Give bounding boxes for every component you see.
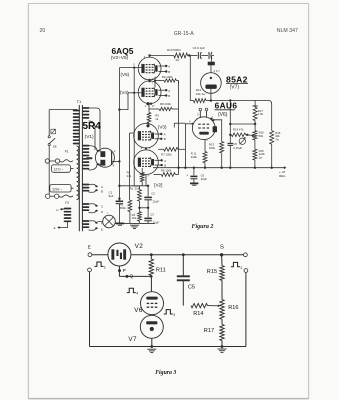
svg-text:20: 20	[40, 28, 46, 34]
svg-text:V6: V6	[134, 307, 143, 314]
svg-text:R9 100k: R9 100k	[162, 75, 173, 79]
svg-text:27k: 27k	[127, 174, 132, 178]
svg-text:P: P	[123, 268, 126, 274]
svg-text:1.5k: 1.5k	[258, 112, 264, 116]
svg-text:R15: R15	[207, 269, 217, 275]
svg-text:127v ~: 127v ~	[54, 168, 64, 172]
svg-text:F2: F2	[65, 201, 69, 205]
svg-text:A: A	[168, 89, 170, 93]
svg-text:Figura 2: Figura 2	[192, 224, 214, 230]
svg-text:R14: R14	[193, 311, 203, 317]
svg-text:A: A	[101, 185, 103, 189]
svg-text:B: B	[168, 70, 170, 74]
svg-text:R10 500Ω: R10 500Ω	[167, 48, 181, 52]
svg-text:Q: Q	[130, 274, 134, 280]
svg-text:B: B	[164, 164, 166, 168]
svg-text:B: B	[101, 189, 103, 193]
svg-text:100k: 100k	[209, 146, 216, 150]
svg-text:10k: 10k	[132, 216, 137, 220]
svg-text:(V1): (V1)	[85, 134, 94, 140]
svg-text:220v ~: 220v ~	[52, 187, 62, 191]
svg-text:R17: R17	[204, 328, 214, 334]
svg-text:22µF: 22µF	[153, 199, 160, 203]
svg-text:A: A	[164, 132, 166, 136]
svg-text:(V5): (V5)	[121, 72, 130, 77]
svg-text:6AU6: 6AU6	[215, 100, 238, 110]
svg-text:2 4 7: 2 4 7	[214, 69, 221, 73]
svg-text:V2: V2	[135, 243, 144, 250]
svg-text:C5: C5	[188, 284, 195, 290]
svg-text:NLM 347: NLM 347	[277, 28, 298, 34]
svg-text:(V7): (V7)	[230, 85, 240, 91]
svg-text:3: 3	[173, 313, 175, 317]
svg-text:(V6): (V6)	[218, 112, 228, 118]
svg-text:R11: R11	[156, 268, 166, 274]
svg-text:T1: T1	[77, 99, 82, 104]
svg-text:Figura 3: Figura 3	[155, 370, 176, 376]
svg-text:C2: C2	[151, 191, 155, 195]
svg-text:S: S	[220, 245, 224, 251]
svg-text:50k: 50k	[259, 134, 264, 138]
svg-text:220k: 220k	[191, 155, 198, 159]
svg-text:8µF: 8µF	[109, 194, 114, 198]
svg-text:5R4: 5R4	[83, 121, 102, 132]
svg-text:+: +	[186, 174, 188, 178]
svg-text:GR-15-A: GR-15-A	[174, 31, 194, 37]
svg-text:A: A	[164, 159, 166, 163]
svg-text:560k: 560k	[120, 206, 127, 210]
svg-text:E: E	[101, 227, 103, 231]
svg-text:E: E	[54, 226, 56, 230]
svg-text:22µF: 22µF	[201, 177, 208, 181]
svg-text:R19 47k: R19 47k	[233, 128, 244, 132]
svg-text:R7 100k: R7 100k	[161, 153, 172, 157]
svg-text:2: 2	[240, 266, 242, 270]
svg-text:B: B	[164, 137, 166, 141]
svg-text:85A2: 85A2	[226, 74, 248, 84]
svg-text:0.25µF: 0.25µF	[233, 146, 242, 150]
svg-text:R2: R2	[130, 186, 134, 190]
svg-text:R16: R16	[228, 305, 238, 311]
svg-text:R8 100k: R8 100k	[160, 102, 171, 106]
svg-text:6AQ5: 6AQ5	[112, 46, 134, 56]
svg-text:(V3): (V3)	[158, 125, 167, 130]
svg-text:V7: V7	[128, 336, 137, 343]
svg-text:(V4): (V4)	[120, 90, 129, 95]
svg-text:S8: S8	[53, 145, 57, 149]
svg-text:A: A	[168, 65, 170, 69]
svg-text:REG: REG	[279, 174, 286, 178]
svg-text:E: E	[88, 245, 91, 251]
svg-text:24k 1w: 24k 1w	[196, 92, 206, 96]
svg-text:1: 1	[104, 265, 106, 269]
svg-text:4: 4	[136, 292, 138, 296]
svg-text:H: H	[56, 208, 58, 212]
svg-text:C4 0.1µF: C4 0.1µF	[193, 46, 206, 50]
svg-text:R6 100k: R6 100k	[161, 169, 172, 173]
svg-text:22k: 22k	[135, 186, 140, 190]
svg-text:F1: F1	[65, 150, 69, 154]
svg-text:[V2]: [V2]	[154, 182, 162, 187]
svg-text:(V2÷V5): (V2÷V5)	[111, 55, 129, 61]
svg-text:C3: C3	[150, 212, 154, 216]
svg-text:B: B	[168, 94, 170, 98]
